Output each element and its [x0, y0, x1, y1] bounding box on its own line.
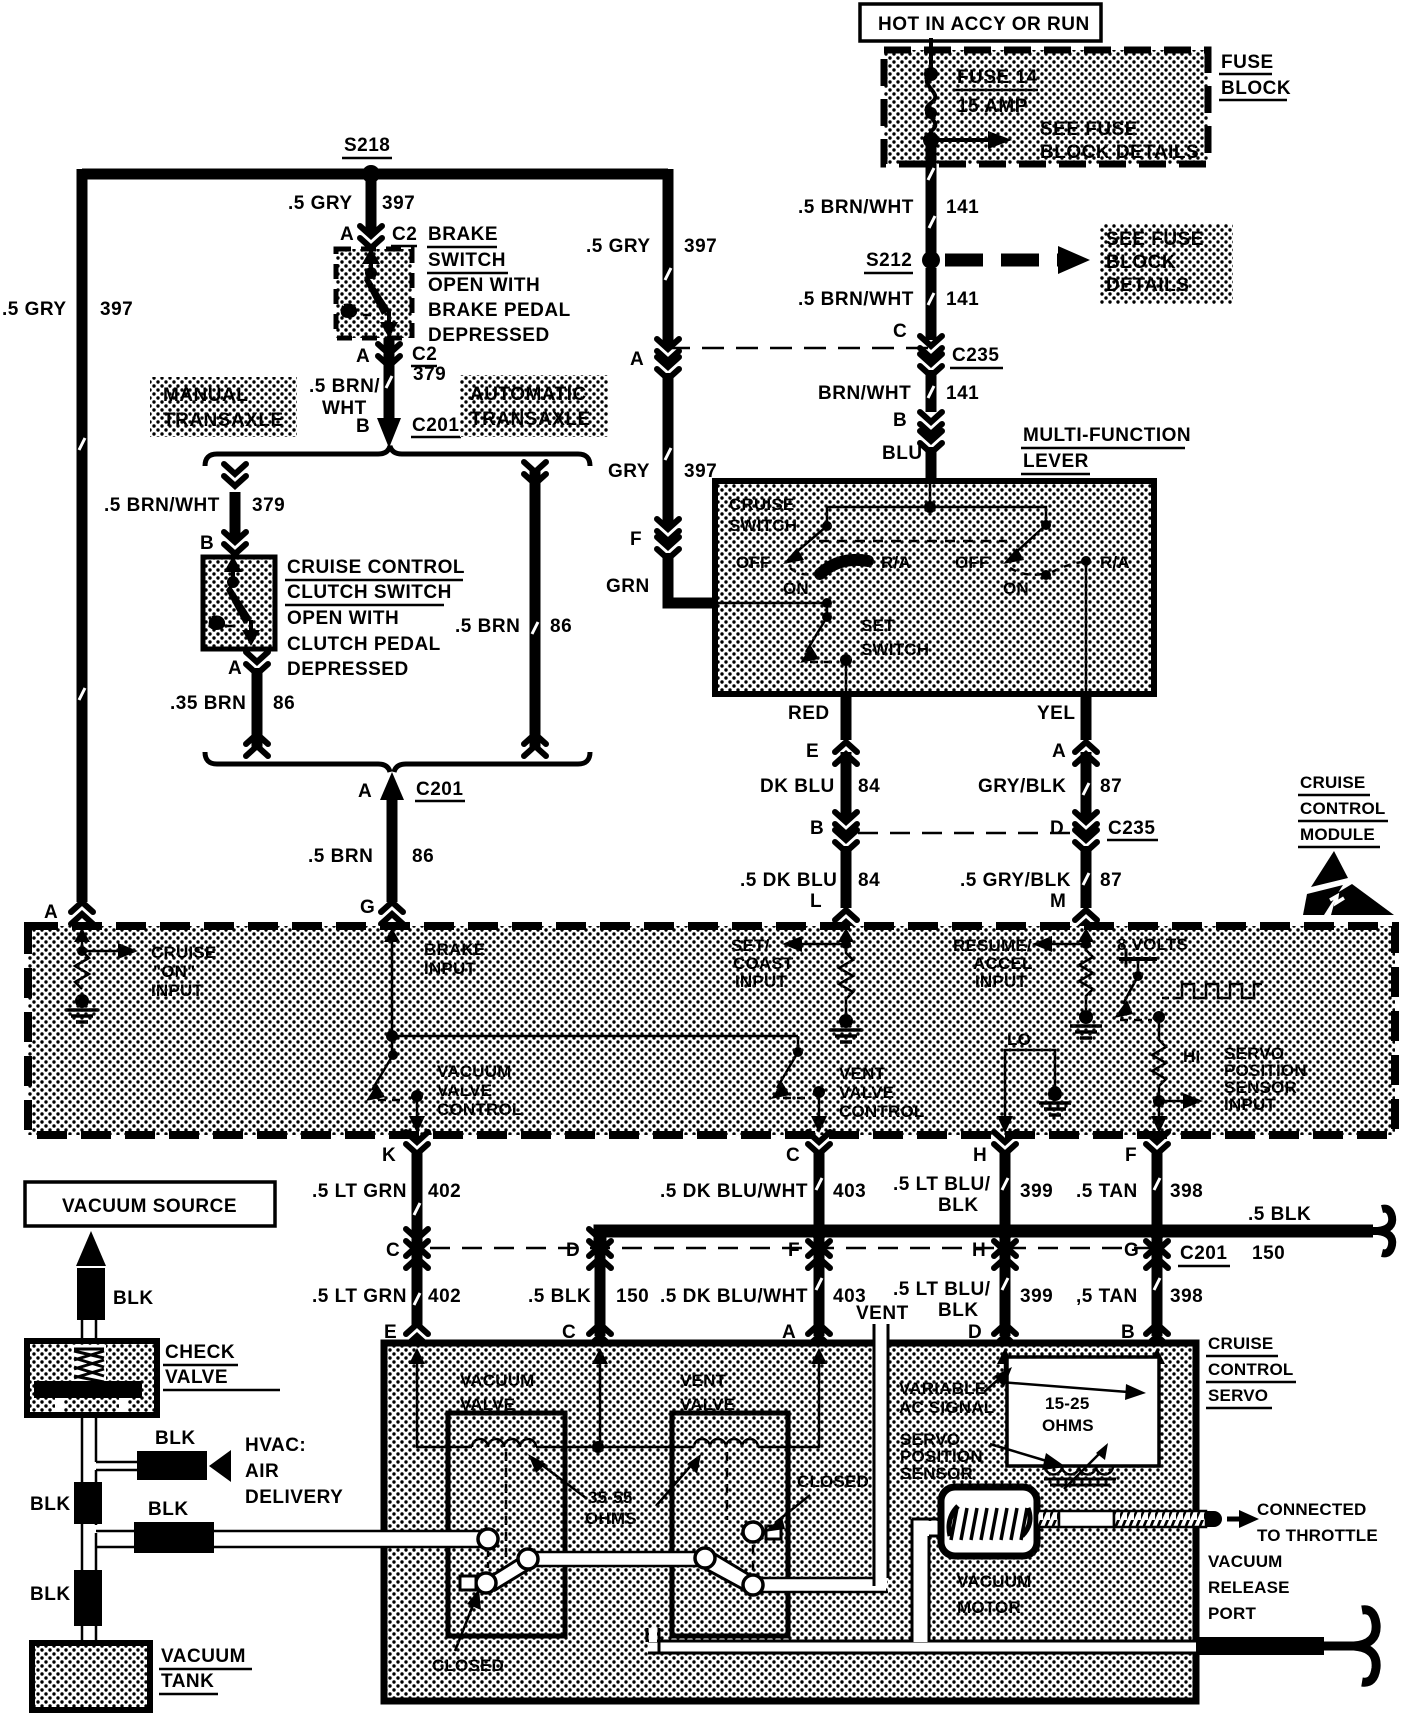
- svg-text:8 VOLTS: 8 VOLTS: [1117, 935, 1188, 954]
- arrow to vent coil: [656, 1454, 701, 1506]
- arrow lo out: [997, 1116, 1013, 1133]
- svg-text:K: K: [382, 1145, 396, 1166]
- connector B C201 arrow down: [356, 415, 461, 448]
- svg-text:R/A: R/A: [1100, 553, 1130, 572]
- svg-text:HI: HI: [1183, 1047, 1200, 1066]
- node cruise switch feed: [924, 501, 936, 513]
- label CHECK VALVE: [163, 1342, 280, 1390]
- label MANUAL TRANSAXLE box: [150, 377, 297, 437]
- svg-text:A: A: [228, 658, 242, 679]
- arrow vent valve control out: [811, 1092, 827, 1133]
- node set contact: [840, 654, 852, 666]
- svg-text:VACUUM: VACUUM: [437, 1062, 512, 1081]
- svg-text:H: H: [973, 1145, 987, 1166]
- connector A servo: [782, 1322, 830, 1346]
- dashed arrow to see fuse block details: [945, 246, 1090, 274]
- pipe bottom channel: [647, 1628, 1196, 1653]
- lo bracket: [1005, 1050, 1055, 1118]
- label CRUISE CONTROL CLUTCH SWITCH: [285, 557, 465, 680]
- svg-text:.5 LT BLU/: .5 LT BLU/: [893, 1174, 991, 1195]
- connector A C2 bottom: [356, 344, 437, 367]
- connector B C235: [810, 812, 857, 852]
- pin A arrow in: [74, 928, 90, 951]
- label VENT VALVE CONTROL: [839, 1064, 924, 1121]
- svg-text:CRUISE: CRUISE: [1300, 773, 1365, 792]
- svg-text:A: A: [356, 346, 370, 367]
- svg-text:L: L: [810, 891, 822, 912]
- svg-text:BRAKE PEDAL: BRAKE PEDAL: [428, 300, 571, 321]
- svg-text:VACUUM: VACUUM: [1208, 1552, 1283, 1571]
- connector E servo: [384, 1322, 428, 1346]
- svg-text:BLK: BLK: [938, 1195, 979, 1216]
- svg-text:150: 150: [616, 1286, 649, 1307]
- svg-text:398: 398: [1170, 1286, 1203, 1307]
- dashes vent valve switch: [783, 1097, 811, 1100]
- svg-text:VACUUM: VACUUM: [460, 1371, 535, 1390]
- svg-text:BLK: BLK: [148, 1499, 189, 1520]
- svg-text:C2: C2: [392, 224, 417, 245]
- label VACUUM TANK: [159, 1646, 252, 1694]
- node vacuum valve control: [411, 1090, 423, 1102]
- svg-text:BRAKE: BRAKE: [424, 940, 485, 959]
- svg-text:F: F: [788, 1240, 800, 1261]
- connector F below module: [1125, 1132, 1168, 1166]
- svg-text:E: E: [806, 741, 819, 762]
- check valve spring: [72, 1345, 106, 1381]
- svg-text:150: 150: [1252, 1243, 1285, 1264]
- svg-text:.5 BLK: .5 BLK: [528, 1286, 591, 1307]
- connector H on C201 line: [972, 1229, 1016, 1268]
- svg-text:FUSE: FUSE: [1221, 52, 1274, 73]
- svg-text:MOTOR: MOTOR: [957, 1598, 1021, 1617]
- vacuum motor body: [941, 1487, 1037, 1556]
- vent valve inner box: [672, 1413, 788, 1636]
- dashes OFF to ON right: [1010, 568, 1042, 575]
- svg-text:GRN: GRN: [606, 576, 650, 597]
- connector K below module: [382, 1132, 428, 1166]
- svg-text:.5 DK BLU/WHT: .5 DK BLU/WHT: [660, 1286, 808, 1307]
- label VACUUM SOURCE box: [25, 1182, 275, 1226]
- svg-text:C235: C235: [952, 345, 999, 366]
- svg-text:MULTI-FUNCTION: MULTI-FUNCTION: [1023, 425, 1191, 446]
- wire left branch top connector: [224, 464, 246, 486]
- svg-text:INPUT: INPUT: [424, 959, 476, 978]
- svg-text:OHMS: OHMS: [1042, 1416, 1094, 1435]
- vacuum valve pivot: [518, 1549, 538, 1569]
- label VENT VALVE: [680, 1371, 735, 1414]
- svg-text:RESUME/: RESUME/: [953, 936, 1032, 955]
- see fuse block details box: [1100, 224, 1233, 304]
- pin G arrow in: [384, 928, 400, 955]
- svg-text:.5 GRY: .5 GRY: [586, 236, 651, 257]
- svg-text:GRY: GRY: [608, 461, 650, 482]
- ground lo: [1039, 1087, 1071, 1115]
- vacuum release port pipe: [1196, 1637, 1324, 1655]
- arrow servo hi out: [1151, 1101, 1167, 1133]
- svg-text:HVAC:: HVAC:: [245, 1435, 306, 1456]
- arrow connected to throttle: [1227, 1510, 1259, 1528]
- wire GRY/BLK 87: [1081, 752, 1092, 820]
- vacuum source arrow: [76, 1231, 106, 1320]
- svg-text:SERVO: SERVO: [1208, 1386, 1268, 1405]
- svg-text:BLK: BLK: [155, 1428, 196, 1449]
- svg-text:.5 BRN/WHT: .5 BRN/WHT: [798, 197, 914, 218]
- label VACUUM MOTOR: [957, 1572, 1032, 1617]
- svg-text:BLK: BLK: [113, 1288, 154, 1309]
- set switch arm: [800, 603, 832, 663]
- wire E to coil: [417, 1375, 472, 1447]
- svg-text:87: 87: [1100, 776, 1122, 797]
- connector D servo: [968, 1322, 1016, 1346]
- svg-text:BLOCK DETAILS: BLOCK DETAILS: [1040, 142, 1199, 163]
- connector A yel: [1052, 741, 1097, 764]
- svg-text:.5 LT GRN: .5 LT GRN: [312, 1181, 407, 1202]
- label BRAKE INPUT: [424, 940, 485, 978]
- svg-text:SWITCH: SWITCH: [428, 250, 506, 271]
- svg-text:.5 GRY: .5 GRY: [2, 299, 67, 320]
- wire BLU: [926, 447, 937, 484]
- vacuum valve port upper: [478, 1529, 498, 1549]
- connector pin B of MFL: [893, 410, 942, 453]
- node A junction: [77, 946, 87, 956]
- label FUSE 14 / 15 AMP: [955, 67, 1038, 117]
- svg-text:COAST: COAST: [733, 954, 794, 973]
- throttle shaft: [1037, 1511, 1222, 1527]
- arrow cruise on input: [82, 943, 138, 959]
- connector C below module: [786, 1132, 830, 1166]
- node servo hi: [1153, 1011, 1165, 1023]
- wire GRN elbow into MFL: [668, 553, 716, 603]
- wire GRN inside: [716, 602, 827, 605]
- svg-text:379: 379: [252, 495, 285, 516]
- svg-text:A: A: [44, 902, 58, 923]
- connector A C2 top: [340, 224, 417, 248]
- node M: [1081, 939, 1091, 949]
- vent valve lower port: [743, 1575, 763, 1595]
- label AUTOMATIC TRANSAXLE box: [460, 375, 608, 437]
- pipe valve to vent pivot: [535, 1552, 698, 1566]
- svg-text:DELIVERY: DELIVERY: [245, 1487, 343, 1508]
- wire YEL inside: [1085, 561, 1088, 694]
- vacuum tank box: [32, 1643, 150, 1710]
- svg-text:CONTROL: CONTROL: [437, 1100, 522, 1119]
- hose union lower: [74, 1570, 102, 1626]
- brace top: [205, 446, 590, 466]
- svg-text:A: A: [340, 224, 354, 245]
- svg-text:BLOCK: BLOCK: [1106, 252, 1176, 273]
- vacuum valve lower port: [476, 1573, 496, 1593]
- wire RED: [841, 694, 852, 740]
- svg-text:.5 BLK: .5 BLK: [1248, 1204, 1311, 1225]
- arrow resume accel input: [1032, 936, 1086, 952]
- svg-text:402: 402: [428, 1286, 461, 1307]
- arrow set coast input: [782, 936, 846, 952]
- svg-text:SET: SET: [861, 616, 895, 635]
- mech link dashed: [819, 540, 1007, 543]
- svg-text:C2: C2: [412, 344, 437, 365]
- label MULTI-FUNCTION LEVER: [1021, 425, 1191, 474]
- variable inductor servo position sensor: [1007, 1443, 1159, 1489]
- cruise switch left arm: [783, 526, 827, 564]
- svg-text:OPEN WITH: OPEN WITH: [428, 275, 540, 296]
- pin C arrow in: [592, 1348, 608, 1380]
- svg-text:BLK: BLK: [30, 1584, 71, 1605]
- node L: [841, 939, 851, 949]
- svg-text:CRUISE CONTROL: CRUISE CONTROL: [287, 557, 465, 578]
- connector D on C201 line: [566, 1229, 611, 1268]
- node lo ground: [1049, 1086, 1061, 1098]
- svg-text:398: 398: [1170, 1181, 1203, 1202]
- wire 86 right branch: [530, 470, 541, 750]
- label S218: [342, 135, 392, 158]
- svg-text:AIR: AIR: [245, 1461, 279, 1482]
- vacuum valve pivot arm: [488, 1553, 536, 1590]
- connector A C235 right wire: [630, 339, 679, 379]
- dashes OFF to ON left: [790, 568, 812, 574]
- svg-text:GRY/BLK: GRY/BLK: [978, 776, 1066, 797]
- svg-text:SWITCH: SWITCH: [861, 640, 929, 659]
- wire 397 left vertical: [77, 169, 88, 902]
- svg-text:.5 GRY: .5 GRY: [288, 193, 353, 214]
- off page hook 150: [1370, 1209, 1392, 1254]
- vacuum valve inner box: [448, 1413, 565, 1636]
- svg-text:.5 BRN/WHT: .5 BRN/WHT: [104, 495, 220, 516]
- arrow vacuum valve control out: [409, 1096, 425, 1133]
- svg-text:402: 402: [428, 1181, 461, 1202]
- hose fitting to servo: [134, 1522, 214, 1553]
- svg-text:B: B: [356, 416, 370, 437]
- node left cruise switch: [822, 521, 832, 531]
- svg-text:TANK: TANK: [161, 1671, 214, 1692]
- svg-text:OHMS: OHMS: [585, 1509, 637, 1528]
- wire .5 GRY/BLK 87: [1081, 846, 1092, 908]
- wire 402 K column: [412, 1152, 423, 1325]
- svg-text:C235: C235: [1108, 818, 1155, 839]
- svg-text:141: 141: [946, 383, 979, 404]
- label FUSE BLOCK: [1219, 52, 1291, 100]
- svg-text:86: 86: [550, 616, 572, 637]
- svg-text:RELEASE: RELEASE: [1208, 1578, 1290, 1597]
- svg-text:OPEN WITH: OPEN WITH: [287, 608, 399, 629]
- connector C235 pin C: [920, 336, 1003, 376]
- svg-text:DEPRESSED: DEPRESSED: [428, 325, 550, 346]
- svg-text:VALVE: VALVE: [437, 1081, 492, 1100]
- wire coil to node: [536, 1446, 596, 1449]
- check valve seat: [34, 1381, 142, 1398]
- svg-text:403: 403: [833, 1181, 866, 1202]
- svg-text:H: H: [972, 1240, 986, 1261]
- svg-text:INPUT: INPUT: [735, 972, 787, 991]
- cruise control clutch switch box: [203, 557, 275, 649]
- pin E arrow in: [409, 1348, 425, 1380]
- wire 379 clutch branch: [230, 492, 241, 540]
- svg-text:CONTROL: CONTROL: [839, 1102, 924, 1121]
- wire 397 right vertical: [663, 169, 674, 346]
- label CRUISE CONTROL MODULE: [1298, 773, 1388, 847]
- svg-text:CONTROL: CONTROL: [1208, 1360, 1293, 1379]
- label 35-55 OHMS: [585, 1488, 637, 1528]
- svg-text:INPUT: INPUT: [151, 981, 203, 1000]
- brace bottom: [205, 752, 590, 772]
- wire GRY 397: [663, 373, 674, 527]
- svg-text:VACUUM: VACUUM: [957, 1572, 1032, 1591]
- svg-text:B: B: [893, 410, 907, 431]
- square wave signal: [1162, 984, 1262, 998]
- arrow variable ac to B: [1000, 1382, 1146, 1400]
- svg-text:AC SIGNAL: AC SIGNAL: [899, 1398, 994, 1417]
- wire RED inside: [845, 660, 848, 694]
- connector C servo: [562, 1322, 611, 1346]
- wire 150 bus: [600, 1231, 1373, 1245]
- label CRUISE SWITCH: [729, 495, 797, 535]
- svg-text:VACUUM: VACUUM: [161, 1646, 246, 1667]
- pipe below check valve: [82, 1415, 96, 1643]
- svg-text:SEE FUSE: SEE FUSE: [1106, 229, 1204, 250]
- ground resume accel: [1070, 1010, 1102, 1038]
- svg-text:VENT: VENT: [856, 1303, 909, 1324]
- svg-text:BRAKE: BRAKE: [428, 224, 498, 245]
- svg-text:BLK: BLK: [938, 1300, 979, 1321]
- label SERVO POSITION SENSOR: [900, 1430, 983, 1483]
- svg-text:A: A: [1052, 741, 1066, 762]
- svg-text:SET/: SET/: [731, 936, 770, 955]
- node R/A contact: [1081, 556, 1091, 566]
- svg-text:MODULE: MODULE: [1300, 825, 1375, 844]
- dashes set switch: [810, 661, 838, 664]
- svg-text:VACUUM SOURCE: VACUUM SOURCE: [62, 1196, 237, 1217]
- arrow closed vent: [764, 1495, 810, 1532]
- svg-text:84: 84: [858, 870, 880, 891]
- svg-text:VENT: VENT: [680, 1371, 727, 1390]
- svg-text:86: 86: [273, 693, 295, 714]
- resistor cruise on: [75, 951, 89, 989]
- vent valve coil: [694, 1439, 758, 1447]
- svg-text:CONNECTED: CONNECTED: [1257, 1500, 1366, 1519]
- wire cruise switch rail: [827, 507, 1046, 526]
- label VARIABLE AC SIGNAL: [899, 1379, 994, 1417]
- svg-text:TRANSAXLE: TRANSAXLE: [163, 410, 284, 431]
- svg-text:B: B: [200, 533, 214, 554]
- svg-text:C201: C201: [416, 779, 463, 800]
- vacuum valve dashed stem: [505, 1452, 508, 1560]
- arrow to vacuum coil: [528, 1454, 586, 1498]
- svg-text:OFF: OFF: [955, 553, 990, 572]
- node servo sensor out: [1153, 1095, 1165, 1107]
- svg-text:S218: S218: [344, 135, 390, 156]
- wire vent coil to A: [758, 1375, 819, 1447]
- connector C on C201 line: [386, 1229, 428, 1268]
- svg-text:HOT IN ACCY OR RUN: HOT IN ACCY OR RUN: [878, 14, 1090, 35]
- label SET SWITCH: [861, 616, 929, 659]
- vacuum valve seat square: [460, 1576, 476, 1590]
- label VACUUM RELEASE PORT: [1208, 1552, 1290, 1623]
- ground set coast: [830, 1014, 862, 1042]
- connector pin A module left: [44, 902, 93, 924]
- svg-text:MANUAL: MANUAL: [163, 385, 248, 406]
- dashed connector line C235: [668, 347, 931, 350]
- dashes 8v switch: [1120, 1019, 1152, 1022]
- vent tube to VENT label: [874, 1324, 888, 1586]
- wire 399 H column: [1000, 1152, 1011, 1336]
- connector E: [806, 741, 857, 764]
- wire 397 S218 to brake switch: [366, 174, 377, 234]
- connector A clutch bottom: [228, 652, 268, 679]
- arrow variable ac to D: [984, 1367, 1012, 1392]
- dashes vacuum valve travel: [487, 1551, 490, 1572]
- wire 86 clutch to brace: [252, 668, 263, 750]
- svg-text:G: G: [360, 897, 375, 918]
- connector M module: [1050, 891, 1097, 932]
- vent valve pivot arm: [700, 1550, 753, 1591]
- connector G module: [360, 897, 403, 924]
- connector D C235: [1050, 812, 1158, 852]
- check valve box: [27, 1341, 157, 1415]
- svg-text:LO: LO: [1007, 1030, 1031, 1049]
- pipe vent to VENT leader: [760, 1578, 888, 1592]
- cruise control module box: [28, 926, 1395, 1135]
- svg-text:SENSOR: SENSOR: [900, 1464, 973, 1483]
- svg-text:399: 399: [1020, 1286, 1053, 1307]
- pipe from hvac to vacuum valve port: [214, 1531, 486, 1547]
- svg-text:15 AMP: 15 AMP: [957, 96, 1028, 117]
- svg-text:C: C: [386, 1240, 400, 1261]
- svg-text:DETAILS: DETAILS: [1106, 275, 1189, 296]
- svg-text:C201: C201: [412, 415, 459, 436]
- resistor resume accel: [1079, 944, 1093, 1010]
- label CRUISE CONTROL SERVO: [1206, 1334, 1296, 1408]
- label RESUME/ACCEL INPUT: [953, 936, 1033, 991]
- hvac horn: [209, 1450, 231, 1482]
- pin B arrow in: [1149, 1348, 1165, 1380]
- wire 150 D to servo: [595, 1252, 606, 1336]
- svg-text:D: D: [566, 1240, 580, 1261]
- svg-text:.5 BRN/WHT: .5 BRN/WHT: [798, 289, 914, 310]
- svg-text:VALVE: VALVE: [839, 1083, 894, 1102]
- svg-text:SWITCH: SWITCH: [729, 516, 797, 535]
- label SERVO POSITION SENSOR INPUT: [1224, 1044, 1307, 1114]
- label C201 150: [1178, 1243, 1285, 1266]
- svg-text:141: 141: [946, 289, 979, 310]
- svg-text:M: M: [1050, 891, 1066, 912]
- node brake split: [386, 1030, 398, 1042]
- hvac hose fitting: [137, 1451, 207, 1480]
- svg-text:84: 84: [858, 776, 880, 797]
- arrow see fuse block details (inside box): [931, 119, 1199, 163]
- wire bus S218 horizontal: [82, 169, 668, 180]
- svg-text:86: 86: [412, 846, 434, 867]
- svg-text:.5 BRN: .5 BRN: [455, 616, 520, 637]
- node coil common: [592, 1441, 604, 1453]
- svg-text:INPUT: INPUT: [975, 972, 1027, 991]
- svg-text:35-55: 35-55: [588, 1488, 632, 1507]
- ESD symbol: [1303, 851, 1394, 915]
- svg-text:ON: ON: [1003, 579, 1029, 598]
- svg-text:,5 TAN: ,5 TAN: [1076, 1286, 1138, 1307]
- svg-text:AUTOMATIC: AUTOMATIC: [470, 384, 587, 405]
- wire 379 below brake switch: [384, 338, 395, 420]
- wire hot to fuse: [929, 38, 933, 74]
- label HOT IN ACCY OR RUN: [860, 4, 1101, 41]
- svg-text:CLUTCH PEDAL: CLUTCH PEDAL: [287, 634, 441, 655]
- label CONNECTED TO THROTTLE: [1257, 1500, 1378, 1545]
- svg-text:R/A: R/A: [881, 553, 911, 572]
- svg-text:397: 397: [684, 236, 717, 257]
- vent valve pivot: [695, 1548, 715, 1568]
- wire .5 DK BLU 84: [841, 846, 852, 908]
- wire 403 C column: [814, 1152, 825, 1336]
- svg-text:"ON": "ON": [153, 962, 195, 981]
- svg-text:CRUISE: CRUISE: [1208, 1334, 1273, 1353]
